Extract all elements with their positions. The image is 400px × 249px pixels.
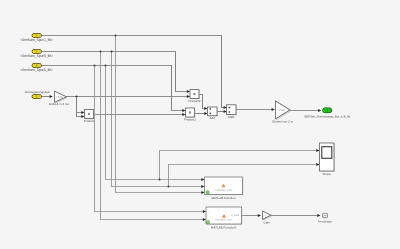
svg-text:Product1: Product1 — [184, 118, 196, 122]
svg-text:k_coeff: k_coeff — [231, 214, 239, 217]
svg-text:Add: Add — [210, 116, 216, 120]
svg-text:member_plot: member_plot — [215, 218, 232, 222]
svg-text:MATLAB Function1: MATLAB Function1 — [211, 225, 237, 229]
svg-text:MATLAB Function: MATLAB Function — [211, 196, 235, 200]
svg-text:Add1: Add1 — [228, 115, 235, 119]
svg-text:Product: Product — [84, 119, 95, 123]
svg-text:<SenKam_SpurC_filt>: <SenKam_SpurC_filt> — [20, 38, 53, 42]
svg-text:Terminator: Terminator — [318, 220, 332, 224]
svg-text:Einheit in 2 ms: Einheit in 2 ms — [49, 102, 69, 106]
svg-text:<SenKam_SpurB_filt>: <SenKam_SpurB_filt> — [20, 54, 53, 58]
svg-text:Scope: Scope — [322, 172, 331, 176]
svg-text:<SenKam_SpurA_filt>: <SenKam_SpurA_filt> — [20, 68, 53, 72]
svg-text:v: v — [206, 186, 207, 188]
svg-text:Einheit von 2 m: Einheit von 2 m — [272, 119, 293, 123]
svg-text:BSFSen_Overridesign_Bol_s_B_fi: BSFSen_Overridesign_Bol_s_B_filt — [304, 114, 350, 118]
svg-text:member_plot: member_plot — [216, 188, 233, 192]
svg-text:Product2: Product2 — [188, 99, 200, 103]
svg-text:u: u — [208, 211, 209, 213]
svg-text:1/500: 1/500 — [56, 95, 63, 99]
svg-text:u: u — [206, 180, 207, 182]
svg-text:1/500: 1/500 — [278, 108, 285, 112]
svg-text:v: v — [208, 219, 209, 221]
svg-text:Gain: Gain — [264, 220, 271, 224]
svg-text:Verzoegerungszeit: Verzoegerungszeit — [25, 90, 50, 94]
